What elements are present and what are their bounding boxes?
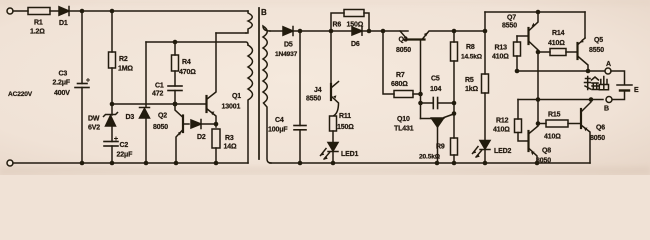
wire Q1 base line (112, 103, 206, 105)
shunt regulator Q10 TL431 (394, 114, 455, 164)
node (535, 161, 540, 166)
svg-text:R9: R9 (436, 144, 445, 151)
transistor Q2 (153, 104, 189, 163)
svg-text:R7: R7 (396, 72, 405, 79)
svg-text:472: 472 (152, 91, 163, 98)
wire (50, 10, 59, 12)
svg-text:680Ω: 680Ω (391, 81, 408, 88)
battery E (611, 71, 639, 100)
svg-text:DW: DW (88, 116, 100, 123)
transistor Q1 (207, 33, 242, 127)
transistor Q8 (529, 124, 552, 165)
resistor R1 (28, 8, 50, 36)
node (298, 161, 303, 166)
transformer primary winding (246, 11, 252, 33)
svg-text:410Ω: 410Ω (492, 53, 509, 60)
wire top rail (69, 10, 248, 12)
svg-text:LED1: LED1 (341, 151, 359, 158)
svg-text:R1: R1 (34, 20, 43, 27)
label 输出 output (585, 77, 609, 90)
svg-text:150Ω: 150Ω (337, 124, 354, 131)
svg-text:1N4937: 1N4937 (275, 51, 298, 58)
svg-text:8050: 8050 (396, 47, 411, 54)
node (80, 161, 85, 166)
node (452, 101, 457, 106)
svg-text:1MΩ: 1MΩ (118, 66, 133, 73)
svg-text:R4: R4 (182, 59, 191, 66)
capacitor C1 (152, 83, 182, 105)
node (173, 40, 178, 45)
svg-text:14Ω: 14Ω (224, 144, 237, 151)
wire (270, 30, 283, 32)
svg-text:R8: R8 (466, 44, 475, 51)
svg-text:R2: R2 (119, 56, 128, 63)
node (110, 9, 115, 14)
node (110, 161, 115, 166)
capacitor C4 (268, 31, 306, 163)
node (367, 29, 372, 34)
wire top rail right (485, 11, 585, 13)
terminal B (606, 97, 612, 103)
resistor R2 (109, 11, 134, 104)
node (589, 97, 594, 102)
node (536, 10, 541, 15)
svg-text:Q3: Q3 (399, 37, 408, 44)
node (515, 69, 520, 74)
svg-text:D5: D5 (284, 42, 293, 49)
svg-text:R11: R11 (339, 113, 351, 120)
diode D3 (126, 42, 150, 163)
node (174, 161, 179, 166)
svg-text:Q8: Q8 (542, 148, 551, 155)
transistor Q5 (578, 12, 605, 71)
svg-text:104: 104 (430, 86, 441, 93)
svg-text:100μF: 100μF (268, 127, 288, 134)
wire to top rail corner (454, 30, 485, 32)
svg-text:B: B (261, 8, 267, 17)
wire main secondary line (293, 30, 352, 32)
transformer secondary winding (263, 26, 271, 163)
node (536, 97, 541, 102)
svg-text:TL431: TL431 (394, 126, 414, 133)
svg-text:20.5kΩ: 20.5kΩ (419, 154, 441, 161)
svg-text:C4: C4 (275, 117, 284, 124)
node (452, 161, 457, 166)
resistor R5 (465, 74, 489, 141)
resistor R15 (538, 112, 581, 141)
svg-text:D6: D6 (351, 41, 360, 48)
svg-text:LED2: LED2 (494, 148, 512, 155)
resistor R13 (492, 36, 521, 71)
wire bottom rail primary (13, 162, 248, 164)
svg-text:8550: 8550 (502, 23, 517, 30)
svg-text:R5: R5 (465, 77, 474, 84)
svg-text:C5: C5 (431, 76, 440, 83)
svg-text:A: A (606, 61, 611, 68)
svg-text:Q1: Q1 (232, 93, 241, 100)
diode D1 (59, 7, 69, 28)
node (329, 29, 334, 34)
diode D6 (351, 27, 408, 48)
node (381, 29, 386, 34)
svg-text:D2: D2 (197, 134, 206, 141)
svg-text:C3: C3 (59, 71, 68, 78)
svg-text:R12: R12 (496, 118, 509, 125)
svg-text:22μF: 22μF (117, 152, 134, 159)
svg-text:Q6: Q6 (596, 125, 605, 132)
node (80, 9, 85, 14)
svg-text:D1: D1 (59, 20, 68, 27)
svg-text:R15: R15 (548, 112, 561, 119)
wire riser x485 (484, 12, 486, 74)
svg-text:C1: C1 (155, 83, 164, 90)
terminal top-left (7, 8, 13, 14)
capacitor C3 (53, 11, 90, 163)
svg-text:R13: R13 (495, 45, 508, 52)
wire A line (517, 70, 605, 72)
resistor R12 (493, 100, 529, 142)
svg-text:410Ω: 410Ω (544, 134, 561, 141)
node (586, 69, 591, 74)
LED1 (320, 143, 358, 164)
wire B line (518, 99, 603, 101)
node (110, 102, 115, 107)
node (452, 111, 457, 116)
svg-text:Q10: Q10 (397, 116, 410, 123)
node (418, 92, 423, 97)
paper background (0, 0, 650, 175)
svg-text:13001: 13001 (222, 104, 241, 111)
svg-text:1kΩ: 1kΩ (465, 86, 478, 93)
node (452, 29, 457, 34)
svg-text:8050: 8050 (590, 135, 605, 142)
svg-text:410Ω: 410Ω (548, 40, 565, 47)
wire feedback winding line (146, 42, 248, 45)
svg-text:8050: 8050 (153, 124, 168, 131)
svg-text:410Ω: 410Ω (493, 127, 510, 134)
resistor R8 (451, 31, 483, 138)
wire Q3 base column (420, 41, 422, 119)
svg-text:B: B (604, 106, 609, 113)
transistor Q6 (581, 100, 605, 164)
resistor R3 (212, 129, 237, 163)
wire x538 column (537, 52, 539, 124)
node (483, 29, 488, 34)
transformer core (258, 8, 260, 159)
svg-text:1.2Ω: 1.2Ω (30, 29, 45, 36)
node (418, 101, 423, 106)
transistor Q7 (502, 12, 538, 52)
zener DW 6V2 (88, 104, 118, 142)
svg-text:Q2: Q2 (158, 113, 167, 120)
svg-text:E: E (634, 87, 639, 94)
svg-text:R6: R6 (333, 22, 342, 29)
svg-text:2.2μF: 2.2μF (53, 80, 71, 87)
wire secondary ground rail (270, 162, 590, 164)
node (214, 122, 219, 127)
wire Q1 collector to primary tap (216, 32, 246, 34)
terminal bottom-left (7, 160, 13, 166)
svg-text:D3: D3 (126, 114, 135, 121)
resistor R14 (538, 30, 578, 56)
capacitor C5 (421, 76, 455, 109)
resistor R7 (383, 31, 421, 98)
diode D5 (275, 27, 298, 59)
LED2 (472, 141, 511, 164)
capacitor C2 (104, 137, 133, 163)
node (214, 161, 219, 166)
svg-text:J4: J4 (314, 87, 322, 94)
wire (13, 10, 28, 12)
svg-text:Q5: Q5 (594, 37, 603, 44)
svg-text:14.5kΩ: 14.5kΩ (461, 54, 483, 61)
node (536, 50, 541, 55)
resistor R9 (419, 138, 458, 163)
svg-text:R14: R14 (552, 30, 565, 37)
svg-text:C2: C2 (120, 142, 129, 149)
svg-text:Q7: Q7 (507, 15, 516, 22)
svg-text:8550: 8550 (306, 96, 321, 103)
svg-text:470Ω: 470Ω (179, 69, 196, 76)
node (144, 161, 149, 166)
svg-text:400V: 400V (54, 90, 70, 97)
resistor R11 (330, 113, 355, 143)
svg-text:6V2: 6V2 (88, 125, 100, 132)
terminal A (605, 68, 611, 74)
svg-text:8550: 8550 (589, 47, 604, 54)
transformer feedback winding (248, 45, 253, 163)
resistor R4 (172, 42, 197, 86)
svg-text:R3: R3 (225, 135, 234, 142)
node (173, 102, 178, 107)
node (483, 161, 488, 166)
resistor R6 (331, 10, 369, 32)
diode D2 (191, 120, 216, 142)
node (331, 161, 336, 166)
node (536, 121, 541, 126)
node (298, 29, 303, 34)
transistor Q3 (396, 31, 454, 54)
transistor J4 (306, 31, 339, 116)
svg-text:AC220V: AC220V (8, 91, 33, 98)
node (435, 161, 440, 166)
